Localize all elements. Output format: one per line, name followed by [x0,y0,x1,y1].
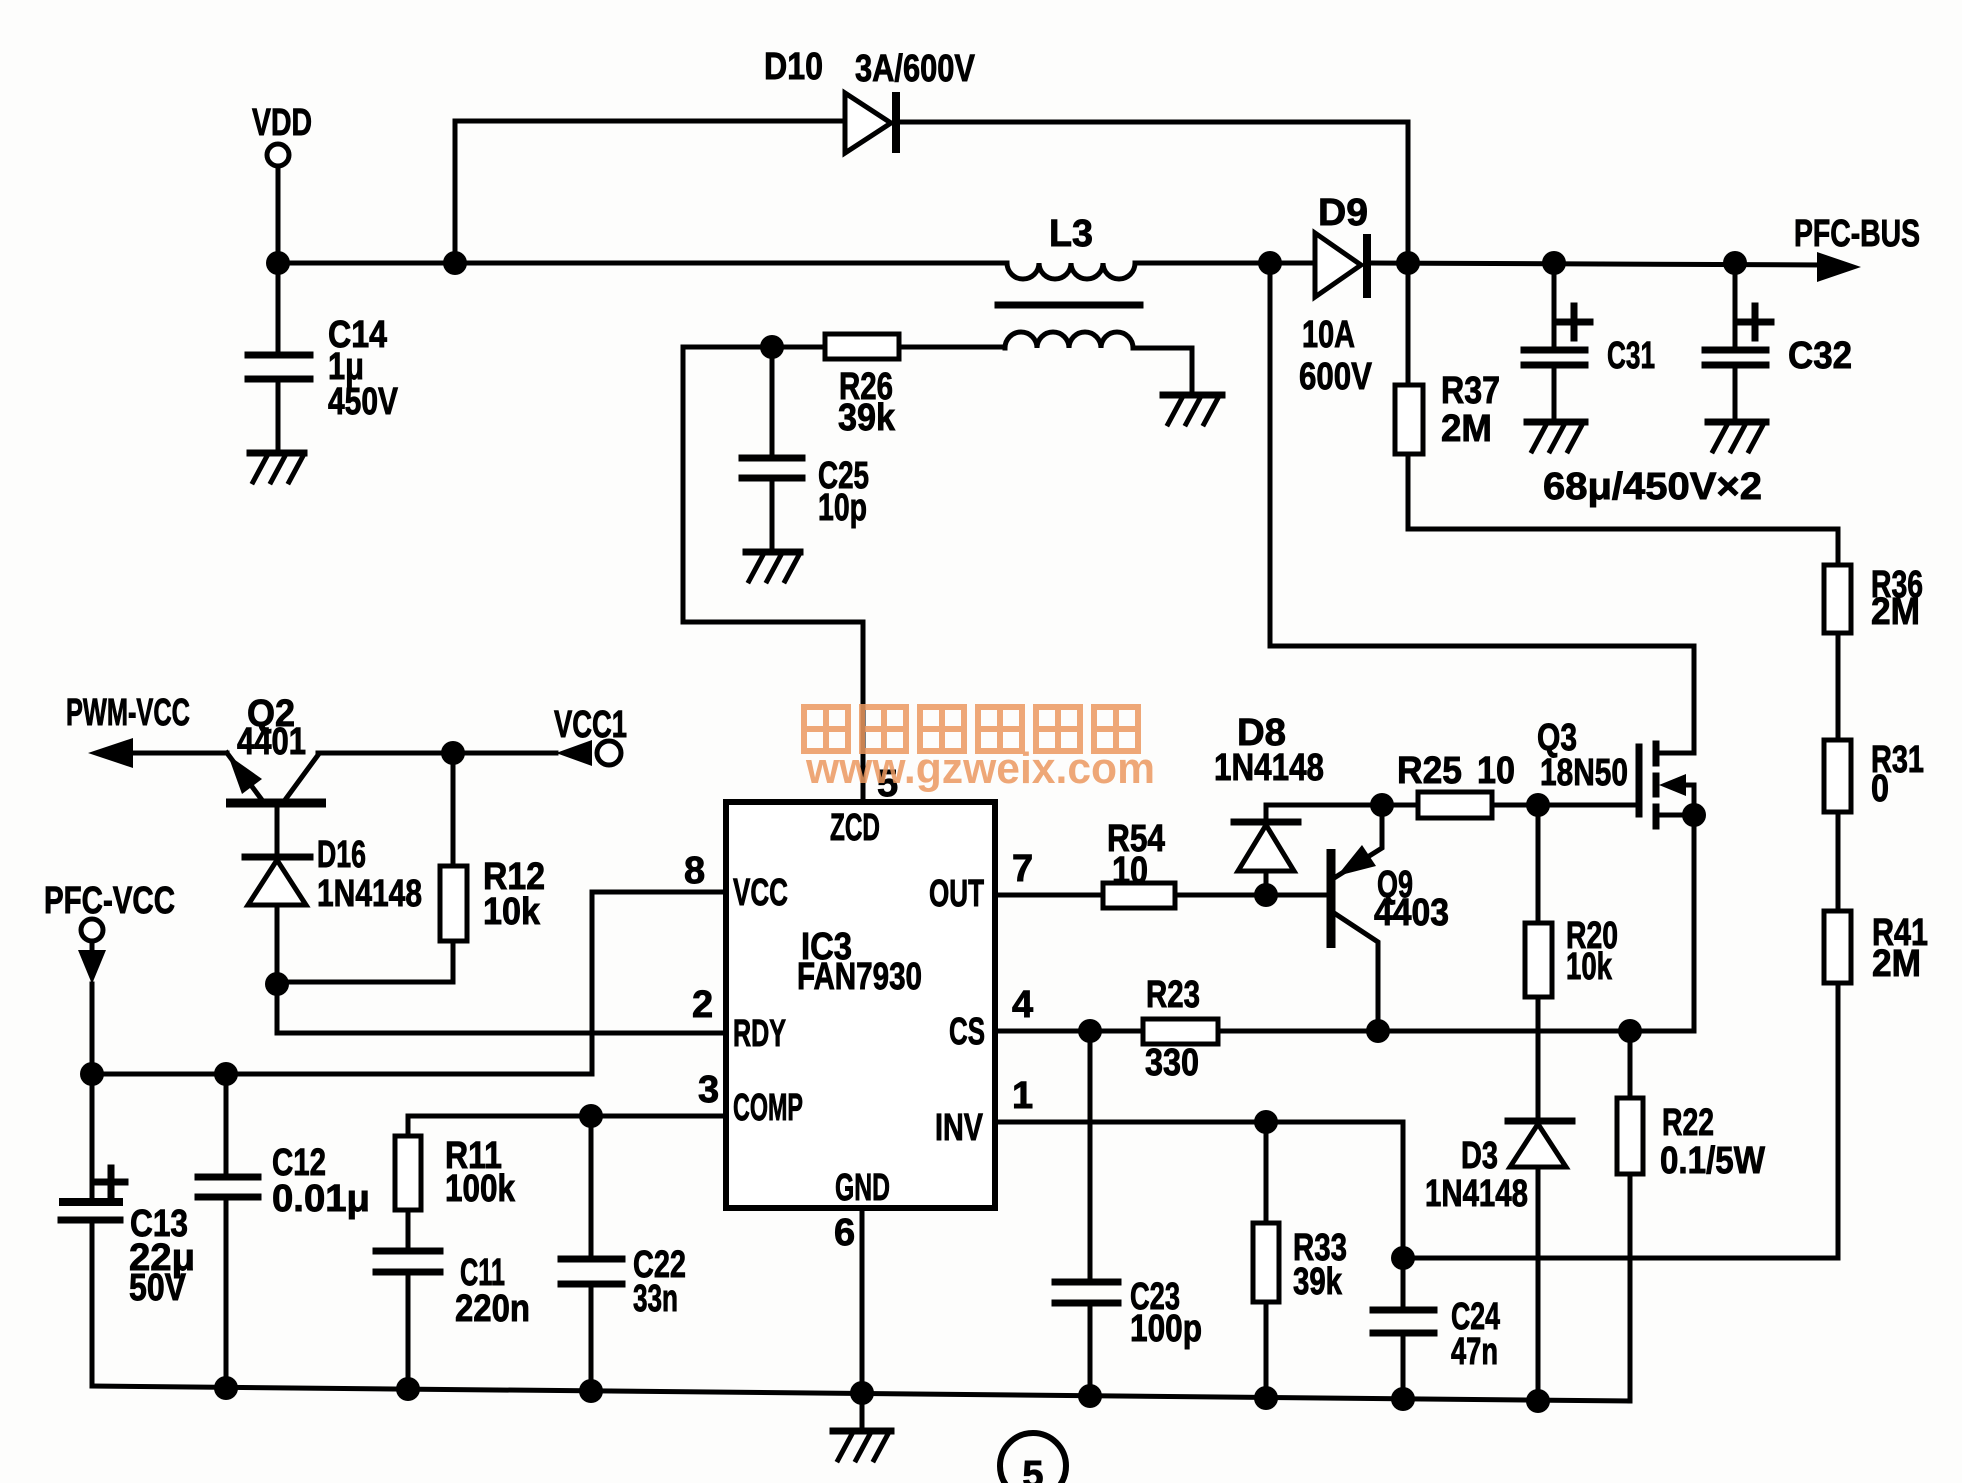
svg-text:0: 0 [1871,768,1889,810]
ground under C25 [746,552,800,581]
wire Q2 collector to VCC1 [318,751,556,756]
svg-text:5: 5 [1022,1454,1043,1483]
diode D3 1N4148 [1425,1121,1572,1401]
junction dot D10/R37 [1396,251,1420,275]
wire COMP net pin 3 [408,1114,726,1119]
resistor R12 [440,753,545,982]
junction dot bus C24 [1391,1387,1415,1411]
junction dot C12 top [214,1062,238,1086]
wire main rail left segment [278,261,1007,266]
svg-text:ZCD: ZCD [830,807,880,849]
svg-text:2M: 2M [1441,408,1492,450]
resistor R31 [1824,739,1924,911]
node sheet number 5 [1000,1433,1066,1483]
resistor R20 [1525,805,1618,1118]
svg-text:1: 1 [1012,1075,1033,1117]
node PFC-BUS arrow [1794,213,1920,282]
svg-text:2M: 2M [1872,943,1921,985]
junction dot bus C12 [214,1376,238,1400]
svg-text:10k: 10k [1566,946,1613,988]
resistor R41 [1403,911,1928,1258]
wire D10 to PFC rail [899,122,1408,263]
svg-text:39k: 39k [1293,1261,1343,1303]
ground under C31 [1527,422,1585,451]
svg-text:D10: D10 [764,46,823,88]
junction dot R26/C25/ZCD [760,335,784,359]
svg-text:10p: 10p [818,487,867,529]
diode D9 10A/600V [1299,192,1373,398]
junction dot R33 top [1254,1110,1278,1134]
svg-text:0.01μ: 0.01μ [272,1178,370,1220]
capacitor C13 electrolytic [59,1074,195,1386]
resistor R23 [1143,974,1694,1084]
node VDD terminal [252,102,312,166]
junction dot R25/R20/gate [1526,793,1550,817]
svg-text:39k: 39k [838,397,896,439]
svg-text:PFC-BUS: PFC-BUS [1794,213,1920,255]
resistor R25 [1397,750,1639,818]
inductor L3 primary winding [1007,213,1135,279]
svg-text:4403: 4403 [1374,892,1449,934]
wire gate net [1266,803,1418,808]
svg-text:10: 10 [1112,850,1148,892]
junction dot main/D10 branch [443,251,467,275]
svg-text:100p: 100p [1130,1308,1202,1350]
svg-text:450V: 450V [328,381,399,423]
wire D10 branch: up and across top [455,121,845,263]
svg-text:10k: 10k [483,891,541,933]
transistor Q3 18N50 MOSFET [1537,717,1706,827]
wire ZCD net: junction to IC pin 5 [683,347,863,802]
junction dot Q9 collector/CS [1366,1019,1390,1043]
svg-text:R25: R25 [1397,750,1462,792]
diode D8 1N4148 [1214,712,1324,895]
svg-text:PWM-VCC: PWM-VCC [66,692,190,734]
svg-text:VCC: VCC [733,872,788,914]
svg-text:CS: CS [949,1011,985,1053]
transistor Q9 4403 [1331,805,1449,1031]
wire INV net pin 1 [995,1122,1403,1258]
junction dot C23 top [1078,1019,1102,1043]
svg-text:VDD: VDD [252,102,312,144]
svg-text:L3: L3 [1049,213,1093,255]
svg-text:PFC-VCC: PFC-VCC [44,880,175,922]
junction dot C24/divider [1391,1246,1415,1270]
junction dot C31 [1542,251,1566,275]
svg-text:OUT: OUT [929,873,984,915]
node PFC-VCC terminal [44,880,175,984]
svg-text:7: 7 [1012,848,1033,890]
capacitor C23 [1055,1031,1202,1396]
wire D9 cathode to PFC-BUS arrow [1371,263,1824,265]
capacitor C32 electrolytic [1705,263,1852,419]
diode D16 1N4148 [245,807,422,984]
svg-text:50V: 50V [129,1267,187,1309]
junction dot C22 top [579,1104,603,1128]
svg-text:GND: GND [835,1167,890,1209]
resistor R26 [772,334,1005,439]
resistor R54 [1103,818,1328,908]
capacitor C22 [561,1116,686,1391]
junction dot bus C11 [396,1377,420,1401]
svg-text:R37: R37 [1441,370,1500,412]
svg-text:2: 2 [692,984,713,1026]
capacitor C25 [742,347,869,549]
svg-text:R22: R22 [1662,1102,1714,1144]
svg-text:COMP: COMP [733,1087,803,1129]
svg-text:68μ/450V×2: 68μ/450V×2 [1543,466,1762,508]
wire main rail to D9 [1135,261,1317,266]
transistor Q2 4401 [226,693,326,803]
svg-text:1N4148: 1N4148 [1214,747,1324,789]
wire OUT pin 7 [995,893,1103,898]
op-amp IC3 FAN7930 box [726,802,995,1209]
capacitor C14 [248,263,399,450]
junction dot D16/R12/RDY [265,972,289,996]
svg-text:600V: 600V [1299,356,1373,398]
resistor R36 [1824,564,1923,740]
ground under GND pin [833,1431,891,1460]
junction dot bus D3 [1526,1389,1550,1413]
svg-text:18N50: 18N50 [1540,752,1628,794]
junction dot D8 anode [1254,883,1278,907]
svg-text:RDY: RDY [733,1013,786,1055]
svg-text:4: 4 [1012,984,1033,1026]
L3 core [998,302,1140,309]
svg-text:10: 10 [1477,750,1515,792]
wire Q3 source down to CS net [1692,815,1697,1031]
ground under L3 secondary [1163,395,1222,424]
svg-text:330: 330 [1145,1042,1199,1084]
junction dot R22 top [1618,1019,1642,1043]
svg-text:33n: 33n [633,1278,678,1320]
capacitor C12 [198,1074,370,1388]
svg-text:6: 6 [834,1212,855,1254]
resistor R22 [1617,1031,1765,1401]
wire PFC-VCC down to C13 and bus [90,984,95,1199]
wire RDY net to pin 2 [277,984,726,1033]
svg-text:1N4148: 1N4148 [1425,1173,1528,1215]
resistor R11 [395,1116,516,1248]
junction dot R12 top [441,741,465,765]
junction dot PFC-VCC/VCC net [80,1062,104,1086]
svg-text:FAN7930: FAN7930 [797,956,922,998]
capacitor C11 [376,1251,530,1390]
diode D10 3A/600V [764,46,976,153]
inductor L3 secondary winding [1005,332,1133,348]
junction dot C32 [1723,251,1747,275]
wire GND pin 6 down [860,1208,865,1428]
resistor R33 [1253,1122,1347,1398]
svg-text:8: 8 [684,850,705,892]
junction dot bus C23 [1078,1384,1102,1408]
wire ground bus [92,1386,1630,1401]
svg-text:C32: C32 [1788,335,1852,377]
junction dot drain branch [1258,251,1282,275]
node VCC1 terminal [554,704,627,766]
svg-text:www.gzweix.com: www.gzweix.com [805,744,1155,793]
resistor R37 [1395,263,1500,529]
wire VCC net up to pin 8 [592,892,726,1074]
wire drain net: rail down and across to Q3 drain [1270,263,1694,753]
watermark [804,707,1155,793]
svg-text:R23: R23 [1146,974,1200,1016]
wire secondary to ground [1133,348,1192,392]
svg-text:1N4148: 1N4148 [317,873,422,915]
junction dot bus R33 [1254,1386,1278,1410]
svg-text:47n: 47n [1451,1331,1498,1373]
svg-text:3: 3 [698,1069,719,1111]
svg-text:0.1/5W: 0.1/5W [1660,1140,1765,1182]
wire R37 to divider chain [1408,529,1838,565]
ground under C32 [1708,422,1766,451]
svg-text:VCC1: VCC1 [554,704,627,746]
wire VDD down to main rail [276,167,281,263]
svg-text:100k: 100k [445,1168,516,1210]
svg-text:2M: 2M [1871,591,1920,633]
svg-text:10A: 10A [1302,314,1355,356]
ground under C14 [250,453,304,482]
svg-text:D16: D16 [317,834,366,876]
wire D16 anode to R12 bottom [277,980,453,985]
wire VCC net horizontal [92,1072,592,1077]
junction dot bus C22 [579,1379,603,1403]
svg-text:D9: D9 [1318,192,1368,234]
junction dot D8/R25/Q9 emitter [1370,793,1394,817]
svg-text:220n: 220n [455,1288,530,1330]
junction dot VDD/main [266,251,290,275]
node PWM-VCC arrow [66,692,227,768]
junction dot bus GND [850,1381,874,1405]
svg-text:C31: C31 [1607,335,1655,377]
svg-text:INV: INV [935,1107,983,1149]
svg-text:D3: D3 [1461,1135,1498,1177]
capacitor C24 [1373,1258,1500,1399]
capacitor C31 electrolytic [1524,263,1655,419]
wire CS net pin 4 [995,1029,1143,1034]
svg-text:3A/600V: 3A/600V [855,48,976,90]
svg-text:4401: 4401 [237,721,306,763]
